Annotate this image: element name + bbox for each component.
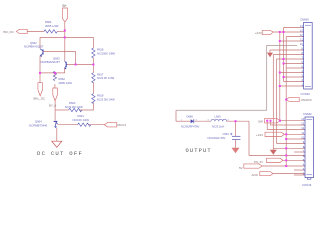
port BY_6 bbox=[53, 88, 58, 101]
wire CN662 row125 bbox=[271, 124, 306, 126]
rail bus C x279.8 to SW bbox=[279, 32, 281, 121]
svg-text:NC/PBHV9115T: NC/PBHV9115T bbox=[24, 45, 44, 49]
wire right riser down bbox=[248, 121, 250, 155]
transistor Q662 bbox=[40, 49, 43, 56]
wire CN662 row139 bbox=[286, 138, 305, 140]
wire Q663 emitter to bottom-left net bbox=[40, 68, 65, 73]
junction emitter net / BKL_DC bbox=[39, 72, 41, 74]
resistor R664 bbox=[44, 30, 57, 33]
pin numbers CN660 bbox=[300, 24, 303, 87]
svg-text:ON/OFF: ON/OFF bbox=[301, 98, 312, 102]
wire R621 to MCU4 port bbox=[88, 124, 105, 126]
port +14V bbox=[265, 132, 284, 136]
rail bus D x273.3 down to row 148.3 bbox=[272, 55, 274, 150]
wire Q664 emitter to ground bbox=[56, 128, 58, 141]
connector pin ticks bbox=[302, 28, 305, 175]
junction rail B row155.5 bbox=[285, 155, 287, 157]
svg-text:2R05 1/4W: 2R05 1/4W bbox=[59, 81, 73, 85]
junction SW wire riser b bbox=[266, 120, 268, 122]
port ACD bbox=[260, 171, 273, 175]
svg-text:R617: R617 bbox=[97, 72, 104, 76]
junction +24V / rail A bbox=[283, 31, 285, 33]
junction rail B row139 bbox=[285, 138, 287, 140]
svg-text:R621: R621 bbox=[78, 114, 85, 118]
svg-text:NC/3.3M 1/4W: NC/3.3M 1/4W bbox=[97, 97, 115, 101]
junction rail B 5V row bbox=[285, 165, 287, 167]
wire CN662 row148.3 bbox=[273, 147, 305, 149]
wire CN660 pin8 bbox=[273, 54, 303, 56]
svg-text:+14V: +14V bbox=[256, 133, 263, 137]
svg-text:NC/100K 1/8W: NC/100K 1/8W bbox=[97, 51, 115, 55]
svg-text:PS_IN: PS_IN bbox=[254, 160, 263, 164]
wire R619 bottom to corner and left net y110 bbox=[79, 102, 93, 110]
wire R662 top lead bbox=[54, 73, 56, 76]
junction R618-R617 / base net bbox=[92, 64, 94, 66]
wire CN660 pin1 bbox=[280, 85, 304, 87]
svg-text:2R05 1/4W: 2R05 1/4W bbox=[45, 24, 59, 28]
svg-text:CN660: CN660 bbox=[300, 17, 309, 21]
transistor Q664 bbox=[54, 121, 58, 127]
wire cap to ground bbox=[235, 140, 237, 149]
svg-text:DC CUT OFF: DC CUT OFF bbox=[37, 150, 83, 157]
wire Q662 emitter down bbox=[39, 56, 41, 73]
wire CN660 pin5 bbox=[286, 67, 303, 69]
wire Q663 base net y64.5 bbox=[67, 64, 93, 66]
resistor R618 bbox=[92, 48, 95, 58]
transistor Q663 bbox=[65, 61, 68, 69]
rail bus A x283.5 bbox=[283, 28, 285, 82]
resistor R617 bbox=[92, 73, 95, 83]
wire CN660 pin2 bbox=[284, 81, 304, 83]
svg-text:BO_DC: BO_DC bbox=[4, 30, 15, 34]
junction B+ rail / R664 net bbox=[64, 30, 66, 32]
wire cap branch bbox=[235, 121, 237, 136]
rail row125 riser bbox=[270, 121, 272, 125]
wire feed row155.5 bbox=[249, 155, 305, 157]
wire ACD row bbox=[273, 173, 305, 175]
wire CN660 pin3 bbox=[284, 76, 304, 78]
resistor R621 bbox=[78, 123, 91, 126]
wire B+ rail vertical bbox=[64, 22, 66, 61]
rail bus B x286.2 long bbox=[285, 37, 287, 167]
wire SW row to CN662 bbox=[280, 120, 305, 122]
wire R662 to BY_6 port bbox=[54, 84, 56, 88]
resistor R620 bbox=[69, 108, 82, 111]
wire CN660 pin14 bbox=[284, 27, 304, 29]
junction pin3 / rail A bbox=[283, 76, 285, 78]
port SW bbox=[265, 119, 281, 123]
junction rail B PS_IN row bbox=[285, 159, 287, 161]
svg-text:CON16: CON16 bbox=[302, 183, 312, 187]
port MCU4 bbox=[104, 123, 117, 127]
svg-text:L660: L660 bbox=[215, 115, 221, 119]
junction pin7 / rail A bbox=[283, 58, 285, 60]
junction +14V tip bbox=[285, 133, 287, 135]
resistor R619 bbox=[92, 94, 95, 104]
wire CN662 row143.5 bbox=[277, 143, 305, 145]
junction Q662 base drop / base net bbox=[75, 64, 77, 66]
svg-text:SW: SW bbox=[258, 119, 263, 123]
inductor L660 bbox=[211, 119, 227, 121]
wire CN660 pin9 bbox=[270, 49, 304, 51]
wire CN662 row129.5 bbox=[267, 129, 305, 131]
wire output rail bbox=[176, 120, 190, 122]
svg-text:5V: 5V bbox=[239, 166, 243, 170]
wire Q662 base to right then down bbox=[43, 52, 75, 65]
ground arrow (pin9) bbox=[267, 53, 273, 58]
wire horizontal upper net y37.4 bbox=[40, 36, 93, 38]
port ON/OFF bbox=[286, 97, 299, 101]
junction B+ rail / upper net bbox=[64, 36, 66, 38]
svg-text:CON16: CON16 bbox=[301, 92, 311, 96]
wire Q662 collector drop bbox=[39, 37, 41, 48]
svg-text:+24V: +24V bbox=[255, 31, 262, 35]
wire R618 top lead bbox=[92, 37, 94, 48]
wire box left riser bbox=[175, 110, 177, 121]
svg-text:D660: D660 bbox=[187, 115, 194, 119]
svg-text:R664: R664 bbox=[45, 20, 52, 24]
capacitor C661 bbox=[230, 133, 240, 140]
svg-text:NC/3.3M 1/4W: NC/3.3M 1/4W bbox=[65, 105, 83, 109]
junction pin4 / rail C bbox=[279, 72, 281, 74]
wire CN660 pin7 bbox=[277, 58, 304, 60]
port BO_DC bbox=[16, 29, 27, 33]
wire BO_DC to R664 bbox=[27, 30, 44, 32]
svg-text:BY_6: BY_6 bbox=[49, 103, 57, 107]
ground (DC CUT OFF) bbox=[52, 141, 62, 147]
svg-text:B+: B+ bbox=[63, 4, 67, 8]
wire CN662 row175 stub bbox=[294, 174, 305, 176]
svg-text:NC/PMBT3440: NC/PMBT3440 bbox=[29, 123, 48, 127]
rail bus E x276.6 down to row 143.5 bbox=[276, 59, 278, 144]
svg-text:NC/100uF 50V: NC/100uF 50V bbox=[208, 136, 226, 140]
wire CN660 pin12 bbox=[286, 36, 303, 38]
junction +24V / rail C bbox=[279, 31, 281, 33]
wire CN660 pin4 bbox=[280, 72, 304, 74]
svg-text:NC/PBHV9115T: NC/PBHV9115T bbox=[41, 60, 61, 64]
svg-text:MCU4: MCU4 bbox=[118, 123, 127, 127]
wire BY_6 tip down to Q664 base bbox=[54, 101, 56, 121]
wire R618-R617 link bbox=[92, 58, 94, 73]
svg-text:NC/3.3uH: NC/3.3uH bbox=[212, 125, 224, 129]
junction SW wire riser a bbox=[270, 120, 272, 122]
junction SW tip bbox=[279, 120, 281, 122]
port PS_IN bbox=[267, 158, 284, 162]
wire CN662 row170 stub bbox=[294, 169, 305, 171]
wire 5V row bbox=[262, 165, 305, 167]
wire Q664 collector to R621 bbox=[58, 124, 78, 126]
svg-text:R618: R618 bbox=[97, 48, 104, 52]
wire CN660 pin6 bbox=[284, 63, 304, 65]
junction pin11 / rail C bbox=[279, 40, 281, 42]
connector CN662 bbox=[305, 117, 314, 179]
svg-text:Q662: Q662 bbox=[30, 41, 37, 45]
rail pin9 ground stem bbox=[269, 50, 271, 53]
pin numbers CN662 bbox=[301, 117, 304, 175]
svg-text:CN662: CN662 bbox=[303, 112, 312, 116]
junction rail B row148 bbox=[285, 147, 287, 149]
svg-text:BKL_DC: BKL_DC bbox=[34, 97, 47, 101]
svg-text:Q663: Q663 bbox=[53, 57, 60, 61]
junction emitter net / R662 bbox=[54, 72, 56, 74]
port BKL_DC bbox=[38, 83, 43, 96]
rail row129.5 riser bbox=[266, 121, 268, 130]
wire R620 left to BY_6 column bbox=[55, 109, 69, 111]
wire +24V to pin13 bbox=[273, 31, 303, 33]
wire BKL_DC drop bbox=[39, 73, 41, 83]
junction pin6 / rail A bbox=[283, 63, 285, 65]
junction ON/OFF / rail B bbox=[285, 99, 287, 101]
ground arrow (C661) bbox=[232, 148, 240, 154]
wire CN660 pin11 bbox=[280, 40, 304, 42]
svg-text:NC/SURF4TAV: NC/SURF4TAV bbox=[181, 125, 199, 129]
ground arrow (bus D) bbox=[270, 150, 277, 155]
port 5V bbox=[244, 164, 262, 168]
svg-text:ACD: ACD bbox=[252, 173, 259, 177]
svg-text:R620: R620 bbox=[69, 101, 76, 105]
svg-text:R662: R662 bbox=[59, 77, 66, 81]
resistor R662 bbox=[53, 71, 56, 80]
svg-text:R619: R619 bbox=[97, 94, 104, 98]
svg-text:OUTPUT: OUTPUT bbox=[186, 148, 212, 154]
wire brown output feed bbox=[176, 46, 297, 111]
diode D660 bbox=[191, 119, 194, 123]
port +24V bbox=[262, 30, 273, 34]
wire CN662 row152 stub bbox=[294, 151, 305, 153]
junction pin1 / rail C bbox=[279, 85, 281, 87]
wire R617-R619 link bbox=[92, 82, 94, 93]
svg-text:C661: C661 bbox=[223, 132, 230, 136]
wire R664 to junction bbox=[58, 30, 65, 32]
svg-text:NC/10K 1/4W: NC/10K 1/4W bbox=[73, 118, 90, 122]
power symbol B+ bbox=[62, 8, 67, 22]
wire PS_IN row bbox=[283, 159, 305, 161]
wire +14V row bbox=[284, 133, 305, 135]
svg-text:NC/3.3K 1/4W: NC/3.3K 1/4W bbox=[97, 76, 115, 80]
connector CN660 bbox=[304, 23, 313, 90]
svg-text:Q664: Q664 bbox=[35, 120, 42, 124]
junction dot output rail bbox=[235, 120, 237, 122]
